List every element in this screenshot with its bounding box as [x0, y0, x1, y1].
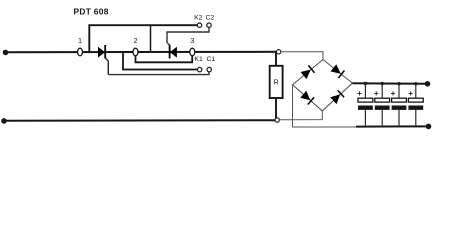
bridge rectifier frame	[293, 60, 353, 111]
capacitor cap4 positive plate	[408, 98, 423, 102]
wire C1 line	[108, 72, 209, 75]
wire main bottom line	[4, 119, 275, 122]
wire cap3 bottom lead	[398, 110, 400, 127]
diode D3 bottom-left	[300, 91, 314, 105]
node terminal 1	[78, 48, 83, 56]
wire top branch to K2	[89, 25, 197, 52]
diode D1 top-left	[301, 65, 315, 79]
terminal C2	[207, 23, 211, 27]
terminal K1	[198, 67, 202, 71]
svg-text:K2: K2	[194, 14, 203, 21]
svg-text:1: 1	[78, 36, 82, 45]
capacitor cap1 positive plate	[358, 98, 373, 102]
node B resistor bottom	[275, 118, 279, 122]
junction dot C1a	[364, 82, 367, 85]
svg-text:+: +	[357, 89, 362, 98]
wire cap2 top lead	[381, 84, 383, 99]
wire resistor top lead	[275, 52, 277, 66]
thyristor V1	[98, 45, 105, 58]
terminal C1	[207, 67, 211, 71]
node terminal 2	[133, 48, 138, 56]
wire junction branch x=150.5	[150, 25, 152, 52]
wire bridge minus to bottom rail	[293, 85, 359, 127]
node A resistor top	[276, 50, 280, 54]
diode D2 top-right	[331, 64, 345, 78]
svg-text:+: +	[391, 89, 396, 98]
capacitor cap2 negative plate	[375, 106, 390, 110]
wire resistor bottom lead	[275, 98, 277, 118]
wire cap2 bottom lead	[381, 110, 383, 127]
svg-text:2: 2	[133, 36, 137, 45]
terminal dot bottom-left	[1, 118, 7, 124]
wire node B to bridge AC bottom	[279, 111, 322, 120]
wire cap4 bottom lead	[415, 110, 417, 127]
thyristor V2	[170, 45, 177, 58]
capacitor cap3 positive plate	[392, 98, 407, 102]
svg-text:C1: C1	[207, 56, 216, 63]
wire cap4 top lead	[415, 84, 417, 98]
node terminal 3	[190, 48, 195, 56]
capacitor cap3 negative plate	[392, 106, 407, 110]
svg-text:+: +	[374, 89, 379, 98]
wire node A to bridge AC top	[281, 52, 323, 60]
svg-text:K1: K1	[194, 56, 203, 63]
capacitor cap4 negative plate	[408, 106, 423, 110]
svg-text:R: R	[274, 80, 279, 87]
wire capacitor bottom rail	[356, 125, 429, 127]
wire cap3 top lead	[398, 84, 400, 99]
junction dot C3a	[397, 82, 400, 85]
wire main top line	[6, 51, 279, 53]
wire cap1 bottom lead	[364, 110, 366, 127]
svg-text:C2: C2	[205, 14, 214, 21]
wire K1 branch	[123, 52, 198, 70]
svg-text:PDT 608: PDT 608	[74, 7, 109, 17]
svg-text:3: 3	[190, 36, 194, 45]
junction dot C4a	[414, 82, 417, 85]
wire capacitor top rail	[352, 82, 427, 85]
capacitor cap1 negative plate	[358, 106, 373, 110]
capacitor cap2 positive plate	[375, 98, 390, 102]
resistor R	[270, 66, 283, 98]
wire gate V2 to C2	[167, 28, 209, 46]
diode D4 bottom-right	[330, 90, 344, 104]
wire cap1 top lead	[364, 84, 366, 99]
wire gate V1	[105, 58, 108, 75]
terminal dot top-left	[3, 50, 9, 56]
junction dot C2a	[381, 82, 384, 85]
terminal dot bottom rail end	[426, 124, 432, 130]
wire link node2-node3	[136, 55, 193, 63]
terminal dot top rail end	[425, 81, 431, 87]
svg-text:+: +	[408, 89, 413, 98]
terminal K2	[197, 23, 201, 27]
